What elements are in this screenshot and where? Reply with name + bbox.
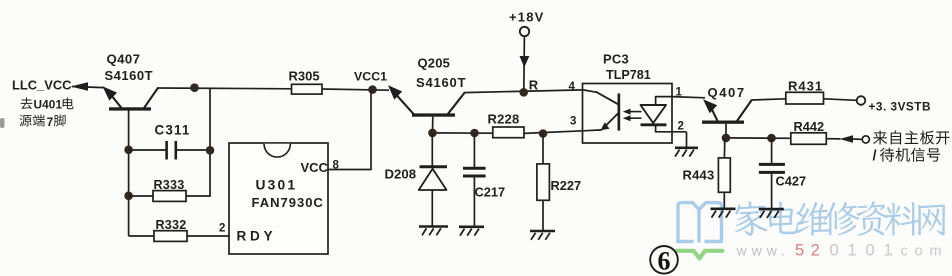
svg-text:R431: R431 [788, 79, 823, 94]
junction dot base/R333 [124, 192, 133, 201]
wire Q205 base drop [432, 117, 434, 133]
IC U301 FAN7930C body [229, 143, 328, 254]
node VCC1 junction dot [368, 85, 377, 94]
wire R305 to VCC1 node [322, 89, 389, 90]
wire R333 left [129, 195, 153, 197]
label TLP781 [606, 68, 651, 82]
wire R443 to ground [723, 192, 725, 208]
diode D208 triangle [419, 169, 447, 190]
ground (PC3 pin2) [675, 148, 698, 157]
wire to C427 [771, 138, 773, 163]
label RDY pin name [237, 229, 277, 244]
arrow +18V pointing down [520, 56, 530, 68]
svg-text:/: / [873, 149, 877, 165]
label /待机信号 [873, 148, 941, 165]
label R [529, 77, 539, 92]
label +18V [509, 10, 545, 25]
svg-text:R442: R442 [794, 119, 825, 134]
label +3.3VSTB [869, 99, 932, 113]
label 来自主板开 [873, 130, 950, 144]
wire C427 to ground [771, 172, 773, 208]
terminal arrow LLC_VCC [71, 82, 89, 91]
label R305 [289, 69, 320, 84]
transistor Q407 (right) emitter arrow [703, 99, 718, 121]
node R junction dot [519, 88, 528, 97]
PC3 phototransistor emitter with arrow [601, 113, 619, 131]
transistor Q407 (left) collector [144, 88, 158, 108]
capacitor C311 [167, 141, 176, 160]
wire PC3 pin1 to Q407 right emitter [672, 97, 705, 98]
svg-text:VCC: VCC [301, 160, 329, 175]
resistor R228 [493, 127, 524, 138]
svg-text:Q205: Q205 [418, 56, 451, 71]
svg-text:www.: www. [736, 243, 790, 259]
ground (R443) [711, 209, 736, 218]
wire to D208 [431, 133, 433, 166]
svg-text:Q407: Q407 [708, 85, 746, 100]
label C217 [475, 185, 506, 200]
wire collector Q407 to R305 [157, 87, 292, 90]
label 去U401电 (to U401 power pin7) [21, 97, 74, 111]
label Q407 (right) [708, 85, 746, 100]
label 源端7脚 line2 [19, 114, 65, 128]
svg-text:C311: C311 [155, 123, 191, 138]
svg-text:TLP781: TLP781 [606, 68, 651, 82]
svg-text:R: R [529, 77, 539, 92]
wire base node to R442 [726, 137, 791, 139]
label R443 [683, 167, 715, 182]
junction dot on top wire [190, 83, 199, 92]
svg-text:C427: C427 [776, 174, 807, 189]
ground (R227) [530, 231, 555, 240]
wire R431 to +3.3VSTB terminal [824, 99, 857, 101]
PC3 LED triangle [641, 105, 667, 123]
PC3 light arrow upper [623, 109, 642, 115]
resistor R227 vertical [537, 164, 550, 200]
PC3 LED cathode bar [641, 123, 667, 126]
label pin 8 [333, 160, 340, 172]
label U301 [256, 178, 298, 193]
scan smudge left edge [0, 118, 5, 128]
wire R228 to PC3 pin3 [524, 131, 583, 134]
svg-text:+3. 3VSTB: +3. 3VSTB [869, 99, 932, 113]
label FAN7930C [252, 195, 324, 210]
label D208 [385, 166, 417, 181]
svg-text:52: 52 [795, 242, 826, 260]
resistor R442 [791, 133, 827, 145]
svg-text:2: 2 [219, 223, 225, 235]
optocoupler PC3 body [583, 84, 673, 144]
wire C311 left [129, 149, 167, 151]
svg-text:4: 4 [569, 81, 576, 93]
resistor R305 [292, 84, 323, 94]
wire Q407 right base drop [725, 124, 727, 138]
svg-text:C217: C217 [475, 185, 506, 200]
svg-text:PC3: PC3 [603, 52, 629, 67]
transistor Q407 (left) base bar [109, 107, 151, 110]
svg-text:D208: D208 [385, 166, 417, 181]
transistor Q205 emitter arrow [388, 85, 414, 114]
wire PC3 pin2 to ground [686, 132, 688, 148]
svg-text:LLC_VCC: LLC_VCC [12, 78, 71, 93]
label pin 4 [569, 81, 576, 93]
watermark logo open book [676, 203, 723, 243]
wire R227 to ground [542, 200, 544, 230]
wire D208 to ground [431, 190, 433, 226]
watermark logo green swoosh [677, 251, 723, 259]
wire R333 right [186, 195, 211, 197]
wire C217 to ground [473, 176, 475, 227]
watermark text 家电维修资料网 [735, 201, 945, 236]
label pin 2 RDY [219, 223, 225, 235]
capacitor C217 [463, 168, 486, 176]
capacitor C427 [759, 164, 785, 172]
terminal standby circle [862, 136, 869, 143]
transistor Q407 (right) base bar [702, 121, 744, 124]
svg-text:R228: R228 [488, 111, 520, 126]
junction dot D208 node [428, 129, 437, 138]
label pin 1 [676, 86, 683, 98]
label S4160T (Q205) [416, 75, 466, 90]
svg-text:R443: R443 [683, 167, 715, 182]
resistor R332 [154, 231, 187, 242]
arrow standby signal input [840, 135, 862, 142]
page number circled 6 [650, 246, 678, 276]
svg-text:3: 3 [570, 115, 576, 127]
wire to R227 [542, 134, 544, 165]
wire Q205 collector to R node to PC3 pin4 [464, 90, 583, 93]
ground (D208) [419, 227, 448, 236]
label R431 [788, 79, 823, 94]
label C427 [776, 174, 807, 189]
junction dot C311 right [206, 146, 215, 155]
label Q205 [418, 56, 451, 71]
svg-text:7: 7 [47, 115, 54, 129]
terminal +3.3VSTB circle [857, 96, 866, 105]
svg-text:c o m: c o m [901, 244, 943, 260]
wire base row D208 junction to R228 [433, 132, 494, 134]
watermark url www.520101.com [736, 242, 943, 260]
svg-text:R332: R332 [156, 218, 187, 232]
junction dot R227 node [539, 129, 548, 138]
wire Q407 base drop [128, 110, 130, 237]
junction dot base/C311 [124, 146, 133, 155]
transistor Q407 (left) emitter arrow [103, 86, 122, 108]
PC3 pin3 wire into box [583, 129, 602, 132]
wire R332 to U301 RDY pin 2 [187, 235, 230, 237]
ground (C217) [459, 227, 484, 236]
resistor R333 [153, 191, 186, 202]
junction dot C427 node [767, 134, 776, 143]
svg-text:2: 2 [678, 121, 684, 133]
svg-text:FAN7930C: FAN7930C [252, 195, 324, 210]
wire R332 left [129, 235, 154, 237]
wire +18V down [523, 36, 526, 92]
label VCC pin name [301, 160, 329, 175]
svg-text:U301: U301 [256, 178, 298, 193]
svg-text:Q407: Q407 [107, 52, 141, 67]
svg-text:VCC1: VCC1 [354, 70, 387, 84]
PC3 light arrow lower [623, 115, 642, 121]
transistor Q205 collector [448, 92, 465, 113]
wire to R443 [723, 138, 725, 158]
wire R442 to input arrow [826, 138, 840, 140]
label R228 [488, 111, 520, 126]
label VCC1 [354, 70, 387, 84]
resistor R431 [786, 92, 824, 104]
wire to C217 [473, 133, 475, 167]
svg-text:6: 6 [658, 247, 671, 276]
label pin 3 [570, 115, 576, 127]
svg-text:S4160T: S4160T [416, 75, 466, 90]
label R332 [156, 218, 187, 232]
node LLC_VCC output wire [72, 87, 104, 88]
label PC3 [603, 52, 629, 67]
wire C311 right [176, 149, 210, 151]
svg-text:R227: R227 [551, 178, 582, 193]
svg-text:+18V: +18V [509, 10, 545, 25]
PC3 phototransistor base bar [618, 94, 621, 131]
label R442 [794, 119, 825, 134]
ground (C427) [759, 209, 784, 218]
transistor Q407 (right) collector [737, 100, 752, 121]
label R333 [154, 178, 185, 192]
diode D208 cathode bar [420, 165, 448, 168]
label pin 2 [678, 121, 684, 133]
svg-text:R333: R333 [154, 178, 185, 192]
svg-text:RDY: RDY [237, 229, 277, 244]
label Q407 (left) [107, 52, 141, 67]
PC3 LED anode wire [656, 97, 672, 105]
label S4160T (left) [105, 68, 154, 83]
wire collector to R431 [751, 99, 786, 100]
label LLC_VCC [12, 78, 71, 93]
svg-text:R305: R305 [289, 69, 320, 84]
svg-text:U401: U401 [34, 98, 63, 112]
svg-text:S4160T: S4160T [105, 68, 154, 83]
junction dot Q407r base node [722, 134, 731, 143]
label R227 [551, 178, 582, 193]
svg-text:.: . [889, 242, 893, 259]
junction dot C217 node [470, 129, 479, 138]
transistor Q205 base bar [412, 113, 455, 116]
resistor R443 vertical [718, 158, 730, 192]
label C311 [155, 123, 191, 138]
PC3 LED cathode wire to pin2 [656, 125, 687, 132]
PC3 phototransistor collector [583, 90, 619, 105]
wire branch vertical to C311/R333 right side [209, 88, 211, 196]
wire U301 VCC pin8 to VCC1 [328, 90, 371, 170]
terminal +18V circle [520, 27, 529, 36]
